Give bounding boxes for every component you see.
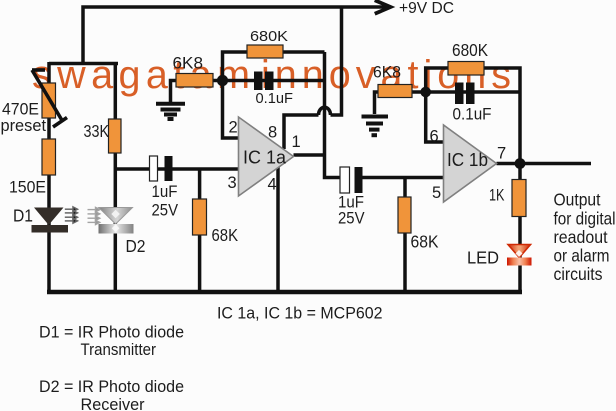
ground G1 (171, 81, 177, 103)
svg-text:readout: readout (554, 227, 608, 247)
capacitor 0.1uF-2 (455, 83, 475, 105)
resistor 1K (512, 180, 526, 217)
svg-text:+9V DC: +9V DC (399, 0, 454, 17)
label output note (554, 190, 616, 284)
wire 680K-2 loop (426, 68, 520, 164)
wire cap1 to pin3 (115, 167, 238, 171)
resistor 680K-2 (448, 62, 484, 76)
capacitor 1uF-2 (340, 167, 363, 193)
svg-text:1: 1 (292, 133, 301, 151)
resistor 68K-1 (193, 199, 207, 235)
wire left branch D1 (47, 62, 51, 290)
svg-text:IC 1b: IC 1b (447, 150, 488, 170)
svg-text:4: 4 (268, 176, 277, 194)
svg-text:680K: 680K (452, 40, 488, 60)
svg-text:for digital: for digital (554, 208, 616, 228)
svg-text:1uF: 1uF (152, 183, 178, 201)
svg-text:IC 1a, IC 1b = MCP602: IC 1a, IC 1b = MCP602 (217, 305, 383, 323)
svg-text:6K8: 6K8 (373, 63, 401, 82)
wire right branch D2 (114, 62, 118, 290)
wire feedback1 (213, 79, 325, 83)
wire 68K-2 stub (403, 178, 407, 291)
svg-text:150E: 150E (9, 178, 46, 197)
resistor preset 470E (42, 83, 56, 118)
wire 68K-1 stub (198, 169, 202, 290)
wire pin4 ground (276, 167, 280, 290)
wire feedback2 (412, 90, 520, 94)
svg-text:8: 8 (268, 124, 277, 142)
op-amp IC 1b (444, 125, 497, 202)
svg-text:3: 3 (228, 174, 237, 192)
wire pin8 (284, 115, 319, 149)
LED output indicator (507, 245, 532, 266)
svg-text:25V: 25V (338, 210, 365, 228)
arrow +9V (377, 1, 391, 13)
wire H bus left (49, 62, 118, 66)
svg-text:25V: 25V (152, 201, 179, 219)
ground G1 bars (156, 104, 185, 119)
svg-text:0.1uF: 0.1uF (256, 90, 294, 107)
resistor 680K-1 (247, 45, 283, 58)
svg-text:D1 = IR Photo diode: D1 = IR Photo diode (39, 323, 184, 342)
wire pin1 out (294, 153, 325, 157)
preset arrow (32, 70, 67, 127)
wire 9V drop (331, 7, 342, 115)
resistor 68K-2 (398, 197, 411, 233)
node junction 2 (420, 87, 431, 98)
svg-text:5: 5 (432, 184, 441, 202)
ground G2 bars (362, 117, 389, 136)
svg-text:7: 7 (497, 145, 506, 163)
wire hop arc (319, 107, 331, 115)
LED D1 transmitter (32, 208, 69, 233)
wire long vertical output1 (325, 52, 342, 178)
resistor 6K8-1 (176, 74, 213, 88)
svg-text:33K: 33K (84, 121, 110, 141)
svg-text:LED: LED (467, 248, 499, 268)
svg-text:6: 6 (430, 128, 439, 146)
svg-text:Output: Output (554, 190, 601, 210)
wire pin6 stub (426, 92, 444, 142)
D2 receive arrows (88, 207, 100, 224)
svg-text:Receiver: Receiver (81, 395, 145, 411)
resistor 150E (42, 139, 56, 175)
svg-text:1K: 1K (489, 186, 505, 205)
wire cap2 to pin5 (361, 176, 444, 180)
wire 680K-1 loop (223, 52, 325, 80)
svg-text:or alarm: or alarm (554, 246, 610, 266)
svg-text:D1: D1 (13, 206, 33, 226)
svg-text:0.1uF: 0.1uF (453, 105, 492, 124)
photodiode D2 receiver (99, 208, 134, 234)
svg-text:preset: preset (1, 116, 47, 135)
svg-text:2: 2 (229, 119, 238, 137)
node output junction (515, 158, 526, 169)
svg-text:6K8: 6K8 (173, 55, 204, 73)
svg-text:Transmitter: Transmitter (81, 340, 157, 359)
resistor 6K8-2 (378, 85, 412, 98)
capacitor 1uF-1 (150, 156, 173, 181)
svg-text:68K: 68K (212, 225, 239, 245)
svg-text:IC 1a: IC 1a (243, 147, 287, 167)
svg-text:D2: D2 (126, 236, 146, 256)
svg-text:D2 = IR Photo diode: D2 = IR Photo diode (39, 377, 184, 396)
svg-text:680K: 680K (250, 28, 288, 45)
wire pin7 output (497, 162, 592, 166)
wire ground rail bottom (47, 290, 522, 295)
svg-text:68K: 68K (411, 232, 439, 252)
op-amp IC 1a (239, 117, 294, 196)
wire pin2 stub (223, 81, 239, 139)
node junction 1 (217, 75, 228, 86)
wire output load (518, 164, 522, 291)
wire +9V top rail (83, 7, 389, 64)
D1 emit arrows (65, 207, 78, 223)
capacitor 0.1uF-1 (254, 72, 274, 91)
resistor 33K (109, 119, 122, 153)
svg-text:circuits: circuits (554, 264, 603, 284)
ground G2 (375, 92, 379, 114)
